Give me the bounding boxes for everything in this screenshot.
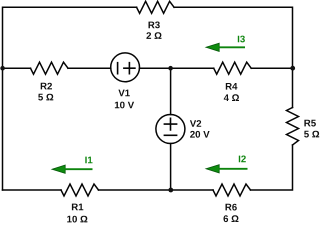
resistor R4 xyxy=(214,62,252,74)
wire: V2 bottom to bottom wire xyxy=(170,144,172,191)
resistor R6 xyxy=(213,184,251,196)
label R5 xyxy=(304,120,316,127)
current arrow I1 xyxy=(52,165,65,173)
junction dot V2 bottom xyxy=(168,188,173,193)
label V2 xyxy=(190,120,201,127)
label 2 ohm xyxy=(146,32,161,39)
resistor R5 xyxy=(287,108,299,146)
label V1 xyxy=(118,90,129,97)
junction dot V2 top xyxy=(168,66,173,71)
label 5 ohm xyxy=(38,94,53,101)
label 10 V xyxy=(115,102,134,109)
wire: bottom-left segment xyxy=(3,189,62,191)
wire: top-right segment and right rail upper xyxy=(174,7,292,107)
wire: left rail and top-left segment xyxy=(3,7,137,190)
wire: middle row left xyxy=(3,67,31,69)
wire: R4 to right rail xyxy=(251,67,292,69)
voltage source V2 xyxy=(156,115,185,144)
label 4 ohm xyxy=(224,94,239,101)
current arrow I3 xyxy=(206,43,219,51)
wire: bottom middle segment xyxy=(99,189,214,191)
wire: middle node down to V2 top xyxy=(170,68,172,114)
wire: R2 to V1 xyxy=(68,67,111,69)
wire: right rail lower and bottom-right segment xyxy=(251,145,293,190)
wire: V1 to R4 xyxy=(140,67,214,69)
label R4 xyxy=(226,83,238,90)
label R3 xyxy=(149,22,160,29)
label 6 ohm xyxy=(224,215,239,222)
label I2 xyxy=(239,156,246,163)
label 10 ohm xyxy=(67,216,87,223)
V2 minus bar xyxy=(164,134,176,136)
junction dot right middle xyxy=(290,66,295,71)
label 20 V xyxy=(190,131,210,138)
junction dot left middle xyxy=(0,66,5,71)
resistor R2 xyxy=(31,62,69,74)
current arrow I2 xyxy=(206,165,219,173)
label I3 xyxy=(238,36,245,43)
label R1 xyxy=(72,204,83,211)
V1 minus bar xyxy=(117,63,119,74)
V2 plus sign xyxy=(164,118,176,130)
resistor R3 xyxy=(137,1,175,13)
label 5 ohm xyxy=(304,131,319,138)
V1 plus sign xyxy=(124,63,135,74)
label I1 xyxy=(85,157,92,164)
label R2 xyxy=(41,83,52,90)
label R6 xyxy=(226,204,237,211)
voltage source V1 xyxy=(111,53,140,82)
resistor R1 xyxy=(61,184,99,196)
